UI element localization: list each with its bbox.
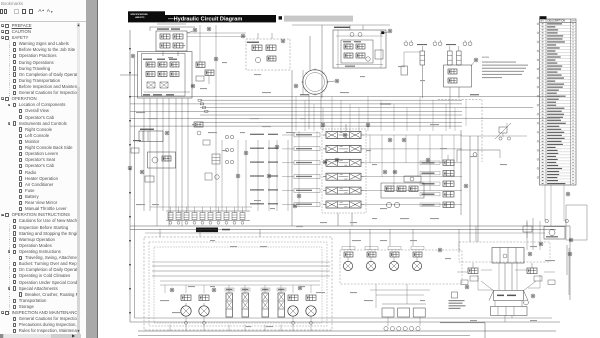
svg-text:NO: NO xyxy=(541,21,545,23)
svg-text:SPECIFICATIONS: SPECIFICATIONS xyxy=(130,13,148,16)
svg-text:AND ETC.: AND ETC. xyxy=(135,16,145,19)
svg-text:NOTES: NOTES xyxy=(482,57,490,59)
svg-text:QTY: QTY xyxy=(571,21,576,23)
svg-text:DESCRIPTION: DESCRIPTION xyxy=(548,19,566,23)
